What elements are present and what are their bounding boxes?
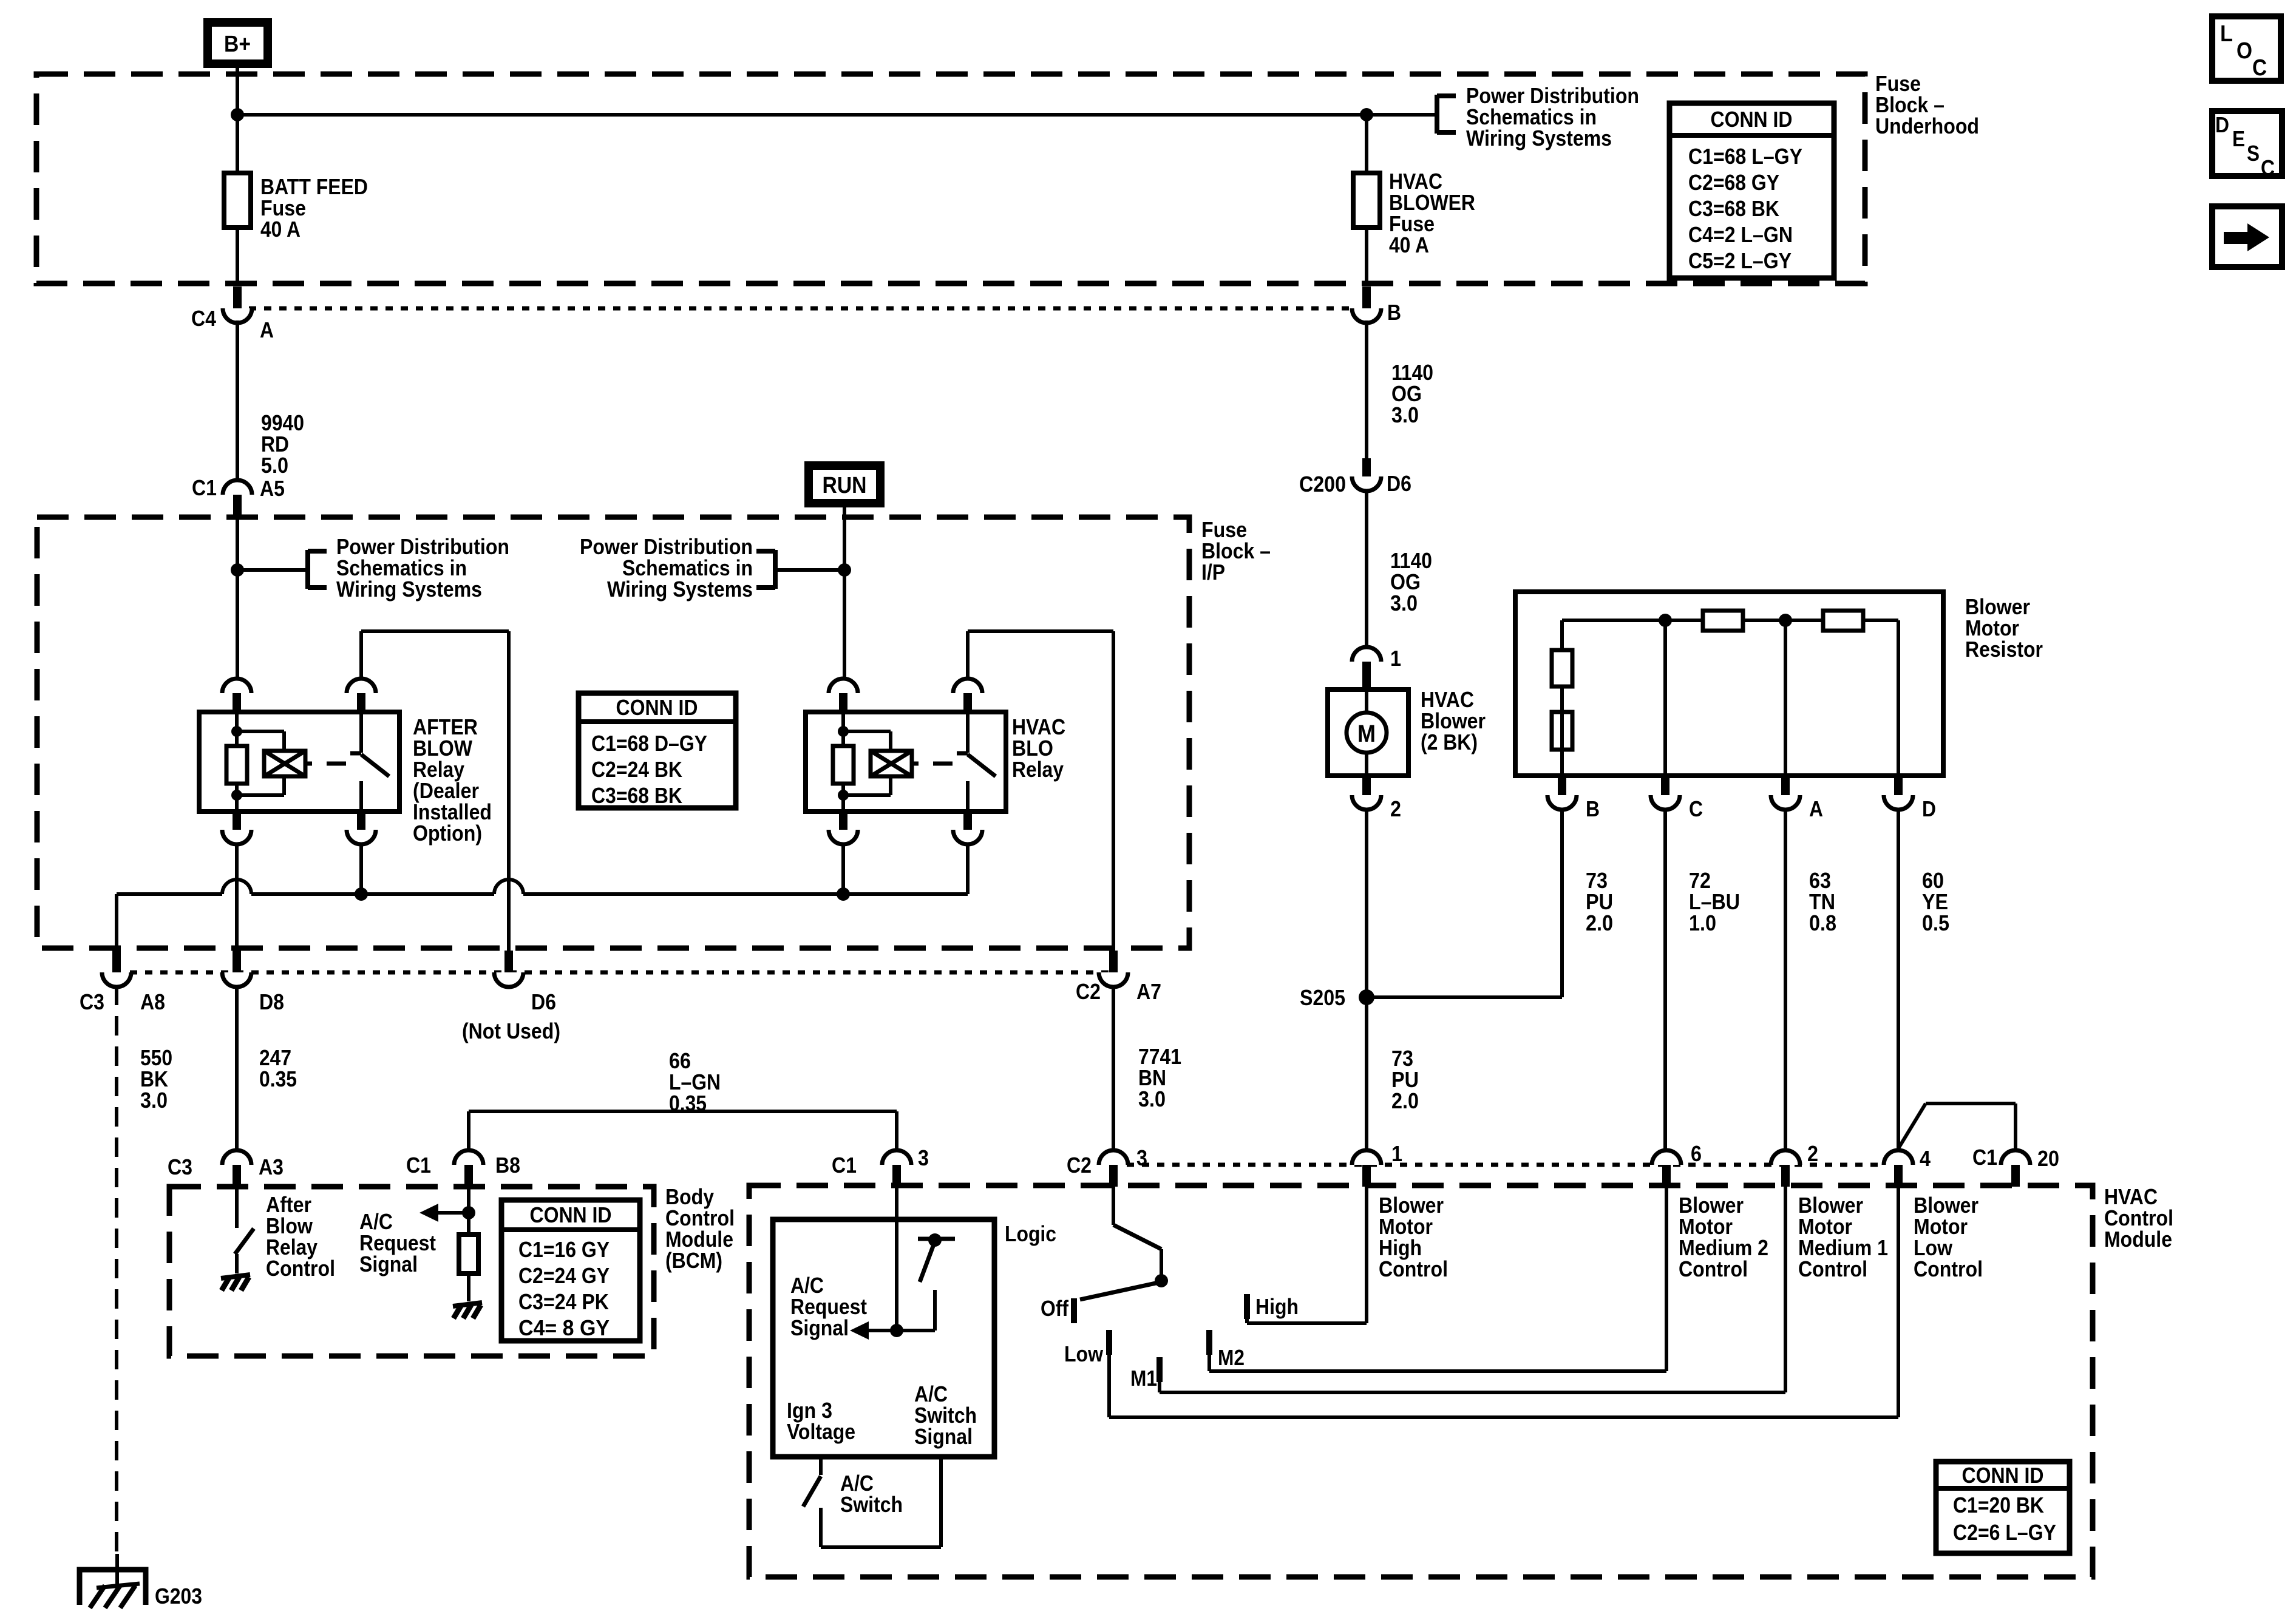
- svg-text:Control: Control: [1679, 1256, 1748, 1281]
- svg-text:3.0: 3.0: [1138, 1086, 1166, 1111]
- svg-text:A8: A8: [140, 989, 165, 1014]
- svg-text:A7: A7: [1136, 979, 1161, 1004]
- svg-text:C3=68 BK: C3=68 BK: [591, 783, 682, 808]
- svg-text:C1: C1: [1972, 1145, 1997, 1170]
- svg-text:4: 4: [1920, 1146, 1931, 1171]
- svg-text:0.35: 0.35: [259, 1066, 297, 1091]
- svg-text:A: A: [260, 317, 274, 342]
- svg-text:C: C: [2261, 155, 2275, 180]
- svg-text:Wiring Systems: Wiring Systems: [607, 577, 753, 602]
- svg-text:2.0: 2.0: [1586, 910, 1613, 935]
- svg-text:C3=68 BK: C3=68 BK: [1688, 196, 1779, 221]
- svg-text:40 A: 40 A: [1389, 232, 1429, 257]
- svg-text:(Not Used): (Not Used): [462, 1019, 560, 1043]
- svg-text:RUN: RUN: [823, 473, 867, 498]
- svg-text:C3: C3: [168, 1154, 192, 1179]
- svg-text:L: L: [2220, 21, 2233, 47]
- svg-text:0.35: 0.35: [669, 1091, 707, 1116]
- svg-text:C4= 8 GY: C4= 8 GY: [518, 1315, 610, 1340]
- svg-text:Signal: Signal: [359, 1252, 418, 1276]
- svg-text:Logic: Logic: [1005, 1221, 1056, 1246]
- svg-text:3.0: 3.0: [1391, 402, 1419, 427]
- svg-text:I/P: I/P: [1201, 560, 1225, 585]
- svg-text:1: 1: [1390, 646, 1401, 671]
- svg-text:6: 6: [1691, 1141, 1702, 1166]
- svg-text:Option): Option): [413, 821, 482, 846]
- svg-text:Underhood: Underhood: [1875, 114, 1979, 138]
- svg-text:D6: D6: [531, 989, 556, 1014]
- svg-text:C5=2 L–GY: C5=2 L–GY: [1688, 248, 1792, 273]
- svg-text:20: 20: [2037, 1146, 2059, 1171]
- svg-text:Control: Control: [1914, 1256, 1983, 1281]
- svg-text:Signal: Signal: [914, 1424, 973, 1449]
- svg-text:D: D: [2215, 112, 2229, 137]
- svg-text:Module: Module: [2104, 1227, 2172, 1252]
- svg-text:Off: Off: [1041, 1296, 1069, 1321]
- svg-text:1: 1: [1391, 1141, 1402, 1166]
- svg-text:Control: Control: [1379, 1256, 1448, 1281]
- svg-text:O: O: [2237, 38, 2252, 64]
- svg-text:M: M: [1357, 720, 1376, 747]
- svg-text:Voltage: Voltage: [787, 1419, 855, 1444]
- svg-text:2: 2: [1807, 1141, 1818, 1166]
- svg-text:3: 3: [918, 1145, 929, 1170]
- svg-text:0.8: 0.8: [1809, 910, 1836, 935]
- svg-text:C4: C4: [191, 306, 216, 331]
- svg-text:C2=6 L–GY: C2=6 L–GY: [1953, 1520, 2056, 1545]
- svg-text:M2: M2: [1218, 1345, 1245, 1370]
- svg-text:(BCM): (BCM): [665, 1248, 722, 1273]
- svg-text:Relay: Relay: [1012, 757, 1064, 782]
- svg-text:(2 BK): (2 BK): [1421, 730, 1478, 754]
- svg-text:B: B: [1387, 300, 1401, 325]
- svg-text:C: C: [1689, 796, 1703, 821]
- svg-text:C: C: [2252, 55, 2267, 81]
- svg-text:Wiring Systems: Wiring Systems: [1466, 126, 1612, 151]
- svg-text:Control: Control: [1798, 1256, 1867, 1281]
- svg-text:C2=68 GY: C2=68 GY: [1688, 170, 1779, 195]
- svg-text:3.0: 3.0: [1390, 591, 1418, 615]
- svg-text:C1=16 GY: C1=16 GY: [518, 1237, 610, 1262]
- svg-text:C200: C200: [1299, 472, 1346, 497]
- svg-text:CONN ID: CONN ID: [616, 695, 698, 720]
- svg-text:C2=24 GY: C2=24 GY: [518, 1263, 610, 1288]
- svg-text:40 A: 40 A: [260, 217, 301, 242]
- svg-text:D: D: [1922, 796, 1936, 821]
- svg-text:G203: G203: [155, 1584, 202, 1609]
- svg-text:Resistor: Resistor: [1965, 637, 2043, 662]
- svg-text:2.0: 2.0: [1391, 1088, 1419, 1113]
- svg-text:Wiring Systems: Wiring Systems: [336, 577, 482, 602]
- svg-text:B+: B+: [224, 32, 251, 57]
- svg-text:5.0: 5.0: [261, 453, 288, 478]
- svg-text:3.0: 3.0: [140, 1088, 168, 1113]
- svg-text:High: High: [1255, 1294, 1299, 1319]
- svg-text:D8: D8: [259, 989, 284, 1014]
- svg-text:Control: Control: [266, 1256, 335, 1281]
- svg-text:C1=68 L–GY: C1=68 L–GY: [1688, 144, 1802, 169]
- svg-text:2: 2: [1390, 796, 1401, 821]
- svg-text:C1=68 D–GY: C1=68 D–GY: [591, 731, 707, 756]
- svg-text:Switch: Switch: [840, 1492, 903, 1517]
- svg-text:C2: C2: [1076, 979, 1101, 1004]
- svg-text:C3: C3: [80, 989, 104, 1014]
- svg-text:C3=24 PK: C3=24 PK: [518, 1289, 609, 1314]
- svg-text:A3: A3: [259, 1154, 284, 1179]
- svg-text:B8: B8: [495, 1153, 520, 1178]
- svg-text:C1: C1: [832, 1153, 857, 1178]
- svg-text:M1: M1: [1130, 1366, 1157, 1391]
- svg-text:Low: Low: [1064, 1341, 1104, 1366]
- svg-text:C2: C2: [1067, 1153, 1092, 1178]
- svg-text:1.0: 1.0: [1689, 910, 1716, 935]
- svg-text:B: B: [1586, 796, 1600, 821]
- svg-text:CONN ID: CONN ID: [1711, 107, 1793, 132]
- svg-text:0.5: 0.5: [1922, 910, 1949, 935]
- svg-text:C1: C1: [406, 1153, 431, 1178]
- svg-text:E: E: [2232, 126, 2245, 151]
- svg-text:D6: D6: [1387, 471, 1411, 496]
- svg-text:A: A: [1809, 796, 1823, 821]
- svg-text:3: 3: [1136, 1145, 1147, 1170]
- svg-text:C2=24 BK: C2=24 BK: [591, 757, 682, 782]
- svg-text:S205: S205: [1300, 985, 1345, 1010]
- svg-text:C4=2 L–GN: C4=2 L–GN: [1688, 222, 1793, 247]
- svg-text:C1=20 BK: C1=20 BK: [1953, 1493, 2044, 1517]
- svg-text:A5: A5: [260, 476, 285, 501]
- svg-text:C1: C1: [192, 475, 217, 500]
- svg-text:CONN ID: CONN ID: [530, 1202, 612, 1227]
- svg-text:S: S: [2247, 141, 2260, 166]
- svg-text:Signal: Signal: [790, 1315, 849, 1340]
- svg-text:CONN ID: CONN ID: [1962, 1463, 2044, 1488]
